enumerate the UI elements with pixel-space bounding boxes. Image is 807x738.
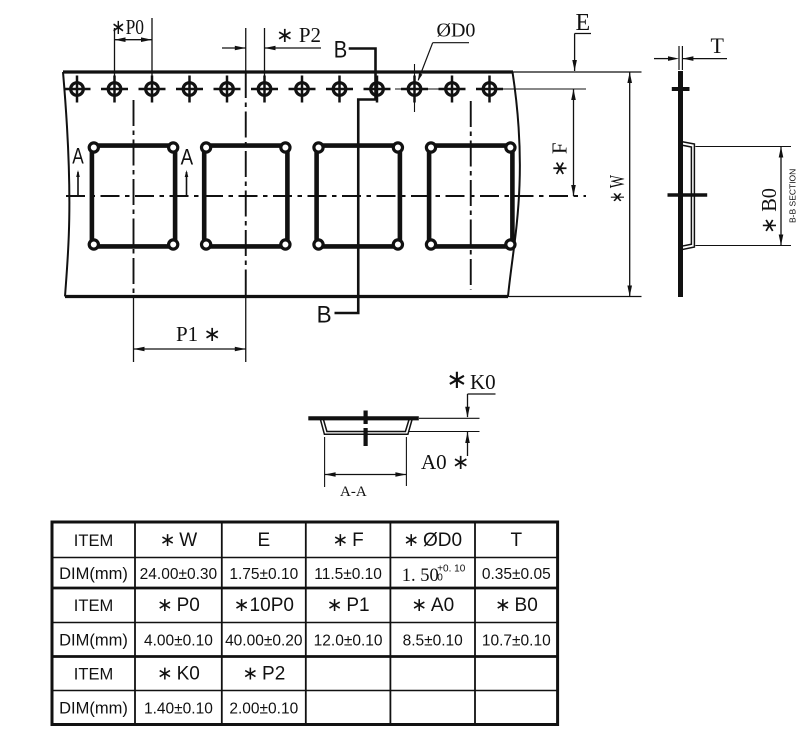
svg-text:A: A [181, 145, 194, 170]
pocket 4 outline [426, 143, 515, 249]
section line B-B [335, 49, 376, 314]
A-A section pocket walls [320, 419, 412, 434]
svg-text:DIM(mm): DIM(mm) [59, 632, 128, 650]
svg-text:A: A [72, 144, 84, 169]
svg-text:∗ A0: ∗ A0 [411, 595, 454, 616]
svg-text:∗ B0: ∗ B0 [495, 595, 538, 616]
sprocket hole 2 [101, 76, 128, 103]
svg-text:ØD0: ØD0 [437, 20, 476, 42]
sprocket hole 1 [64, 76, 91, 103]
svg-text:A0 ∗: A0 ∗ [421, 450, 470, 474]
tape horizontal centerline [66, 195, 586, 197]
svg-text:DIM(mm): DIM(mm) [59, 700, 128, 718]
tape bottom edge [65, 295, 508, 298]
svg-text:E: E [576, 10, 591, 36]
sprocket hole 10 [401, 76, 428, 103]
section arrow A right [185, 170, 189, 196]
svg-text:ITEM: ITEM [74, 597, 113, 615]
svg-text:B-B SECTION: B-B SECTION [788, 169, 798, 223]
svg-text:∗ P1: ∗ P1 [327, 595, 370, 616]
svg-text:∗ W: ∗ W [605, 175, 629, 203]
svg-text:∗ F: ∗ F [332, 530, 363, 551]
dimension B0 extension lines [695, 147, 791, 246]
dimension P0 line with arrows [115, 37, 153, 42]
svg-text:∗10P0: ∗10P0 [234, 595, 294, 616]
sprocket hole 8 [326, 76, 353, 103]
dimension table grid [52, 522, 558, 725]
dimension T right arrow [682, 56, 727, 61]
tape right torn edge [508, 72, 520, 297]
svg-text:∗ F: ∗ F [548, 142, 572, 177]
svg-text:E: E [257, 530, 270, 551]
sprocket hole 6 [251, 76, 278, 103]
pocket 1 centerline extension below tape [133, 297, 135, 363]
svg-text:DIM(mm): DIM(mm) [59, 565, 128, 583]
svg-text:ITEM: ITEM [74, 532, 113, 550]
dimension P2 extension line (hole 6) [264, 28, 266, 77]
sprocket hole 5 [214, 76, 241, 103]
svg-text:∗ B0: ∗ B0 [757, 188, 781, 234]
table row 5 text [74, 664, 285, 685]
dimension K0 extension lines [408, 418, 480, 431]
table row 3 text [74, 595, 538, 616]
dimension B0 line with arrows [779, 147, 784, 246]
pocket 2 centerline extension above tape [245, 28, 247, 72]
dimension W line with arrows [627, 72, 632, 297]
svg-text:ITEM: ITEM [74, 666, 113, 684]
svg-text:∗ P2: ∗ P2 [242, 664, 285, 685]
svg-text:B: B [334, 37, 348, 64]
dimension K0 arrows and leader [465, 394, 495, 456]
table row 2 text [59, 563, 551, 586]
A-A section centerline [364, 411, 368, 447]
svg-text:K0: K0 [470, 370, 496, 394]
svg-text:2.00±0.10: 2.00±0.10 [229, 701, 298, 718]
svg-text:P1 ∗: P1 ∗ [176, 322, 221, 346]
pocket 1 vertical centerline [133, 100, 135, 297]
pocket 3 outline [314, 143, 403, 249]
svg-text:∗ P2: ∗ P2 [276, 23, 321, 47]
side view tape bar [678, 71, 683, 297]
dimension T extension lines [679, 46, 682, 70]
svg-text:0.35±0.05: 0.35±0.05 [482, 566, 551, 583]
tape top edge extension line (W dim) [513, 71, 642, 73]
pocket 2 centerline extension below tape [245, 297, 247, 363]
dimension P0 extension line (hole 3) [151, 18, 153, 77]
svg-text:10.7±0.10: 10.7±0.10 [482, 633, 551, 650]
sprocket hole 4 [176, 76, 203, 103]
side view sprocket hole tick [672, 87, 690, 91]
label *K0 [446, 365, 496, 394]
pocket 4 vertical centerline [470, 101, 472, 290]
svg-text:1.75±0.10: 1.75±0.10 [229, 566, 298, 583]
svg-text:B: B [317, 301, 332, 328]
dimension P2 line right arrow [265, 46, 322, 51]
sprocket hole 11 [439, 76, 466, 103]
A-A section tape surface line [308, 416, 419, 420]
svg-text:1.40±0.10: 1.40±0.10 [144, 701, 213, 718]
dimension P0 extension line (hole 2) [114, 28, 116, 77]
svg-text:T: T [711, 33, 725, 58]
svg-text:40.00±0.20: 40.00±0.20 [225, 633, 303, 650]
dimension T left arrow [654, 56, 679, 61]
section arrow A left [76, 170, 80, 196]
leader line for D0 [418, 43, 469, 82]
svg-text:4.00±0.10: 4.00±0.10 [144, 633, 213, 650]
tape top edge [63, 70, 513, 73]
sprocket hole 3 [139, 76, 166, 103]
dimension P2 line left arrow [222, 46, 246, 51]
sprocket hole 7 [289, 76, 316, 103]
pocket 2 vertical centerline [245, 72, 247, 297]
table row 6 text [59, 700, 298, 718]
svg-text:∗ W: ∗ W [160, 530, 198, 551]
svg-text:0: 0 [437, 572, 443, 583]
dimension E leader with down arrow [572, 34, 591, 72]
dimension A0 extension lines [325, 437, 407, 487]
svg-text:24.00±0.30: 24.00±0.30 [140, 566, 218, 583]
sprocket hole 12 [476, 76, 503, 103]
svg-text:8.5±0.10: 8.5±0.10 [403, 633, 464, 650]
side view pocket bulge outline [681, 142, 694, 250]
pocket 1 outline [89, 143, 178, 249]
svg-text:∗ ØD0: ∗ ØD0 [403, 530, 462, 551]
sprocket hole 9 [364, 76, 391, 103]
table row 1 text [74, 530, 523, 551]
hole 10 crosshair extensions [395, 64, 440, 112]
svg-text:1. 50: 1. 50 [402, 566, 439, 586]
dimension A0 line with arrows [325, 472, 407, 477]
svg-text:11.5±0.10: 11.5±0.10 [314, 566, 382, 583]
tape left torn edge [63, 72, 69, 297]
tape bottom edge extension line (W dim) [508, 296, 642, 298]
dimension F line with arrows [571, 89, 576, 196]
svg-text:∗ P0: ∗ P0 [157, 595, 200, 616]
svg-text:∗P0: ∗P0 [111, 15, 144, 39]
hole row extension line (F dim) [500, 88, 586, 90]
svg-text:12.0±0.10: 12.0±0.10 [314, 633, 383, 650]
svg-text:∗ K0: ∗ K0 [157, 664, 200, 685]
table row 4 text [59, 632, 551, 650]
svg-text:∗: ∗ [446, 365, 468, 394]
svg-text:A-A: A-A [340, 484, 367, 500]
svg-text:T: T [510, 530, 522, 551]
pocket 2 outline [202, 143, 291, 249]
side view centerline tick [668, 193, 708, 197]
dimension P1 line with arrows [134, 347, 246, 352]
